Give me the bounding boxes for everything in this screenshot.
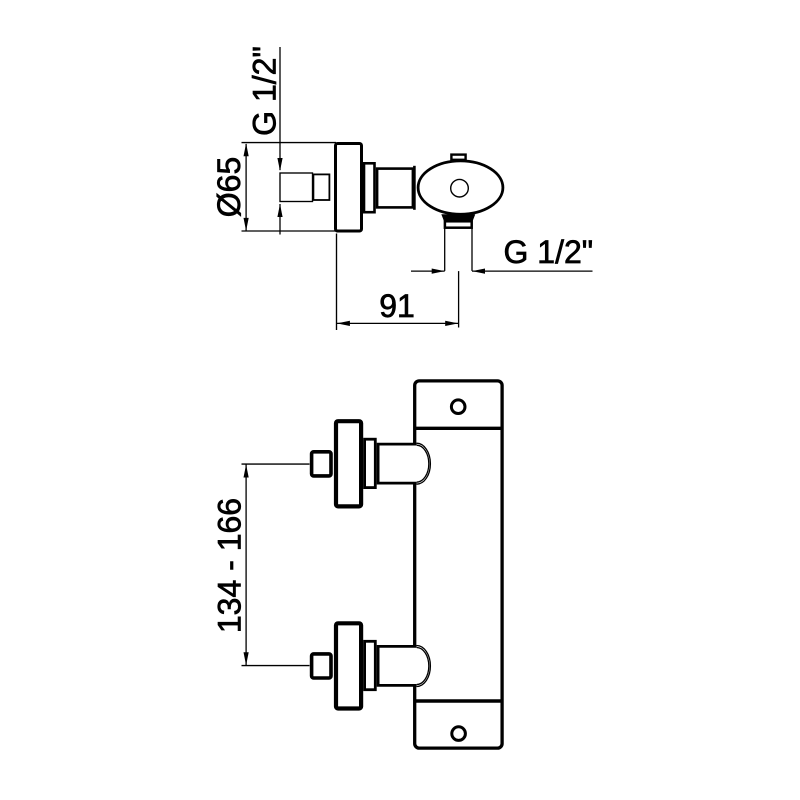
extension line from flange	[336, 234, 338, 331]
top handle knob	[312, 452, 331, 476]
arrowhead right at outlet pipe	[432, 269, 445, 274]
dimension line to outlet left part	[411, 270, 445, 272]
shaft end vertical line	[413, 166, 416, 210]
bottom screw hole	[452, 727, 466, 741]
bottom handle shaft	[378, 646, 417, 685]
leader line G 1/2" upper segment	[279, 47, 281, 170]
top handle disc	[336, 421, 361, 506]
outlet nut band	[445, 221, 472, 227]
arrowhead down at square top	[277, 158, 282, 171]
leader line G 1/2" lower segment	[279, 204, 281, 235]
bottom connection dome inner arc	[417, 648, 429, 685]
dimension line 91	[337, 322, 459, 324]
arrowhead up 134-166	[244, 465, 249, 478]
arrowhead left at outlet pipe	[472, 269, 485, 274]
mixer body ellipse (top view)	[418, 161, 503, 214]
label 91	[379, 288, 415, 324]
top screw hole	[451, 400, 465, 414]
label G 1/2" (outlet)	[504, 234, 594, 270]
outlet trapezoid (shower hose connection)	[441, 214, 475, 220]
dimension line 134-166	[245, 464, 247, 665]
svg-text:Ø65: Ø65	[211, 157, 247, 217]
bottom handle disc	[336, 623, 361, 708]
label Ø65	[211, 157, 247, 217]
arrowhead left 91	[337, 321, 350, 326]
bottom handle extension line	[242, 665, 310, 667]
svg-text:91: 91	[379, 288, 415, 324]
step collar	[364, 163, 375, 212]
wall flange (Ø65 escutcheon edge-on)	[336, 144, 362, 232]
top tab (temperature button)	[451, 155, 465, 160]
bottom plate separator line	[415, 699, 502, 702]
top connection dome outer arc	[417, 443, 431, 484]
svg-text:134 - 166: 134 - 166	[211, 498, 247, 633]
top handle extension line	[242, 463, 310, 465]
square connector	[313, 174, 329, 200]
bottom handle knob	[312, 654, 331, 678]
bottom connection dome outer arc	[417, 646, 431, 687]
mounting body	[415, 381, 502, 748]
top connection dome inner arc	[417, 445, 429, 482]
extension line Ø65 top	[242, 142, 337, 144]
arrowhead up at square bottom	[277, 204, 282, 217]
dimension line Ø65	[245, 144, 247, 231]
top handle shaft	[378, 444, 417, 483]
outlet pipe right line	[471, 229, 473, 271]
top handle step	[365, 439, 376, 487]
body shaft (top view)	[377, 169, 413, 208]
centre circle (cartridge cap)	[451, 179, 469, 197]
top plate separator line	[415, 427, 502, 430]
extension line Ø65 bottom	[242, 230, 337, 232]
outlet pipe left line	[444, 229, 446, 271]
dimension line to outlet right part	[472, 270, 593, 272]
svg-text:G 1/2": G 1/2"	[504, 234, 594, 270]
label 134 - 166	[211, 498, 247, 633]
outlet centre line	[458, 271, 460, 327]
arrowhead up Ø65	[244, 143, 249, 156]
arrowhead down 134-166	[244, 652, 249, 665]
threaded inlet (thin rectangle)	[280, 173, 313, 202]
svg-text:G 1/2": G 1/2"	[247, 46, 283, 136]
arrowhead right 91	[445, 321, 458, 326]
arrowhead down Ø65	[244, 218, 249, 231]
bottom handle step	[365, 641, 376, 689]
label G 1/2" (top inlet)	[247, 46, 283, 136]
